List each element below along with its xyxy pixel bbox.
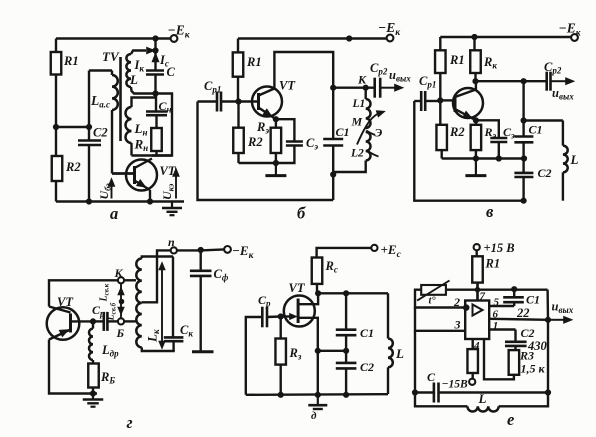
svg-text:+15 В: +15 В	[484, 241, 515, 255]
svg-text:R2: R2	[65, 160, 81, 174]
svg-text:R3: R3	[519, 349, 534, 363]
svg-text:Э: Э	[375, 126, 383, 140]
svg-text:п: п	[168, 235, 175, 249]
svg-text:−15В: −15В	[442, 379, 468, 391]
svg-text:L: L	[129, 72, 138, 87]
svg-text:t°: t°	[429, 296, 437, 307]
svg-text:1: 1	[493, 320, 499, 332]
svg-text:R2: R2	[449, 125, 465, 139]
svg-text:L: L	[478, 391, 487, 406]
svg-text:C1: C1	[529, 123, 543, 137]
svg-text:R1: R1	[63, 54, 79, 68]
svg-text:в: в	[486, 202, 494, 221]
svg-text:C1: C1	[526, 293, 540, 307]
svg-text:б: б	[297, 204, 306, 223]
svg-text:L1: L1	[352, 98, 366, 110]
svg-text:VT: VT	[289, 281, 306, 295]
svg-text:VT: VT	[279, 79, 296, 93]
svg-text:C: C	[167, 65, 176, 79]
svg-text:VT: VT	[57, 295, 74, 309]
svg-text:К: К	[114, 266, 124, 280]
svg-text:R2: R2	[247, 135, 263, 149]
svg-text:C2: C2	[538, 166, 552, 180]
svg-text:L: L	[395, 346, 404, 361]
svg-text:R1: R1	[485, 257, 501, 271]
svg-text:22: 22	[516, 306, 530, 320]
svg-text:C1: C1	[360, 326, 374, 340]
svg-text:К: К	[357, 73, 367, 87]
svg-text:е: е	[507, 410, 514, 429]
svg-text:6: 6	[493, 309, 499, 321]
svg-text:C2: C2	[360, 360, 374, 374]
svg-text:Б: Б	[116, 326, 125, 340]
svg-text:2: 2	[453, 295, 460, 309]
svg-text:R1: R1	[246, 55, 262, 69]
svg-text:д: д	[311, 410, 317, 422]
svg-text:5: 5	[494, 297, 500, 309]
svg-text:L2: L2	[350, 148, 364, 160]
svg-text:г: г	[127, 413, 133, 432]
svg-text:TV: TV	[102, 49, 120, 64]
svg-text:C2: C2	[521, 326, 535, 340]
svg-text:C1: C1	[336, 125, 350, 139]
svg-text:M: M	[351, 115, 363, 129]
svg-text:7: 7	[480, 291, 486, 303]
svg-text:C: C	[427, 370, 436, 384]
svg-text:C2: C2	[93, 126, 108, 140]
svg-text:3: 3	[454, 318, 461, 332]
svg-text:1,5 к: 1,5 к	[521, 362, 546, 376]
svg-text:а: а	[110, 204, 118, 223]
svg-text:R1: R1	[449, 53, 465, 67]
svg-text:L: L	[570, 152, 579, 167]
